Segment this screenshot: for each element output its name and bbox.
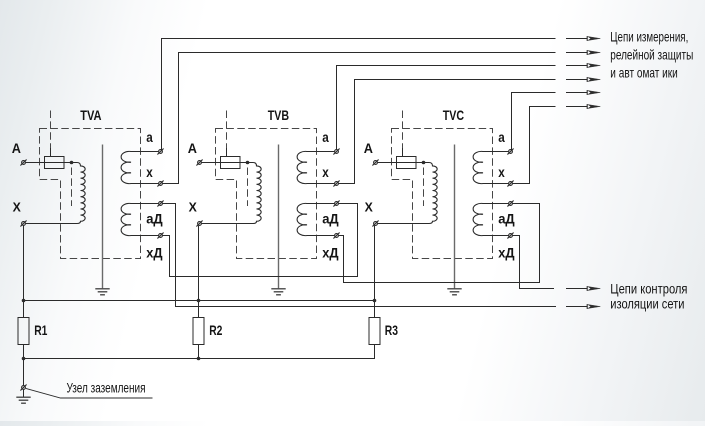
HV bushing dashed line TVC xyxy=(402,111,404,149)
terminal xD TVB xyxy=(335,234,339,238)
inner dashed line TVB xyxy=(247,168,249,207)
ground electrode (uzel zazemleniya) xyxy=(16,397,30,403)
secondary winding a-x TVA xyxy=(121,151,158,183)
auxiliary winding aD-xD TVA xyxy=(121,203,158,235)
wire: TVB x to line 4 xyxy=(339,80,556,184)
svg-text:Х: Х xyxy=(189,200,198,215)
svg-text:А: А xyxy=(188,140,197,156)
svg-text:TVB: TVB xyxy=(268,107,289,123)
arrow measuring circuit line 5 xyxy=(566,92,587,94)
voltage transformer TVA xyxy=(0,0,1,1)
wire: terminal A to primary coil TVB xyxy=(202,162,253,164)
wire: primary coil to terminal X TVB xyxy=(202,223,253,225)
neutral bus xyxy=(24,300,375,302)
fuse lead TVC xyxy=(402,148,404,157)
junction TVC X / bus xyxy=(373,299,377,303)
svg-text:х: х xyxy=(146,165,153,180)
svg-text:Цепи измерения,: Цепи измерения, xyxy=(610,28,688,44)
svg-text:а: а xyxy=(498,130,505,145)
fuse TVB xyxy=(221,157,241,169)
wire: TVB a to line 3 xyxy=(337,66,556,150)
terminal a TVA xyxy=(159,150,163,154)
primary winding TVB xyxy=(253,163,261,224)
HV bushing dashed line TVA xyxy=(50,111,52,149)
svg-text:х: х xyxy=(322,165,329,180)
wire: terminal A to primary coil TVA xyxy=(26,162,77,164)
terminal aD TVA xyxy=(159,202,163,206)
junction on primary TVC xyxy=(422,161,426,165)
terminal X TVA xyxy=(22,222,26,226)
resistor R2 xyxy=(193,318,204,345)
earthing terminal xyxy=(22,386,26,390)
terminal A TVB xyxy=(198,161,202,165)
svg-text:R3: R3 xyxy=(385,322,398,338)
wire: TVA aD to insulation-monitor line 2 xyxy=(163,204,556,307)
secondary winding a-x TVB xyxy=(297,151,334,183)
inner dashed line TVA xyxy=(71,168,73,207)
svg-text:Цепи контроля: Цепи контроля xyxy=(610,280,687,296)
junction R2 / earthing bus xyxy=(197,357,201,361)
leader line uzel zazemleniya xyxy=(26,388,153,398)
core ground TVC xyxy=(447,289,461,295)
primary winding TVC xyxy=(429,163,437,224)
arrow insulation monitoring line 1 xyxy=(566,288,587,290)
junction on primary TVB xyxy=(246,161,250,165)
core TVA xyxy=(102,145,104,289)
wire: TVC x to line 6 xyxy=(513,107,556,184)
secondary winding a-x TVC xyxy=(473,151,508,183)
core ground TVB xyxy=(271,289,285,295)
terminal x TVC xyxy=(509,182,513,186)
svg-text:х: х xyxy=(498,165,505,180)
svg-text:R1: R1 xyxy=(34,322,47,338)
svg-text:TVA: TVA xyxy=(80,107,101,123)
svg-text:А: А xyxy=(12,140,21,156)
terminal xD TVA xyxy=(159,234,163,238)
svg-text:хД: хД xyxy=(498,246,515,261)
svg-text:аД: аД xyxy=(498,211,515,226)
svg-text:Узел заземления: Узел заземления xyxy=(67,381,146,396)
svg-text:аД: аД xyxy=(322,211,339,226)
wire: TVC xD to insulation-monitor line 1 xyxy=(513,236,554,289)
voltage transformer TVC xyxy=(0,0,1,1)
arrow insulation monitoring line 2 xyxy=(566,306,587,308)
resistor R1 xyxy=(18,318,29,345)
wire: TVC a to line 5 xyxy=(512,93,556,150)
wire: TVA X down to R1 xyxy=(23,226,25,318)
core ground TVA xyxy=(95,289,109,295)
fuse lead TVB xyxy=(226,148,228,157)
terminal A TVC xyxy=(374,161,378,165)
junction on primary TVA xyxy=(70,161,74,165)
arrow measuring circuit line 1 xyxy=(566,38,587,40)
wire: TVB X down to R2 xyxy=(198,226,200,318)
junction TVA X / bus xyxy=(22,299,26,303)
svg-text:Х: Х xyxy=(365,200,374,215)
svg-text:изоляции сети: изоляции сети xyxy=(610,295,684,311)
arrow measuring circuit line 6 xyxy=(566,106,587,108)
fuse TVC xyxy=(397,157,417,169)
svg-text:хД: хД xyxy=(322,246,339,261)
core TVB xyxy=(278,145,280,289)
wire: TVA a to line 1 xyxy=(162,39,556,150)
terminal aD TVB xyxy=(335,202,339,206)
terminal A TVA xyxy=(22,161,26,165)
enclosure dashed box TVC xyxy=(392,129,493,259)
svg-text:релейной защиты: релейной защиты xyxy=(610,46,693,62)
terminal aD TVC xyxy=(509,202,513,206)
terminal xD TVC xyxy=(509,234,513,238)
wire: terminal A to primary coil TVC xyxy=(378,162,429,164)
svg-text:и авт омат ики: и авт омат ики xyxy=(610,64,678,80)
terminal x TVA xyxy=(159,182,163,186)
svg-text:а: а xyxy=(146,130,153,145)
svg-text:аД: аД xyxy=(146,211,163,226)
voltage transformer TVB xyxy=(0,0,1,1)
wire: TVB xD to TVC aD (open delta) xyxy=(339,204,540,283)
terminal X TVB xyxy=(198,222,202,226)
arrow measuring circuit line 4 xyxy=(566,79,587,81)
HV bushing dashed line TVB xyxy=(226,111,228,149)
svg-text:TVC: TVC xyxy=(443,107,464,123)
arrow measuring circuit line 3 xyxy=(566,65,587,67)
resistor R3 xyxy=(369,318,380,345)
svg-text:хД: хД xyxy=(146,246,163,261)
auxiliary winding aD-xD TVC xyxy=(473,203,508,235)
terminal a TVB xyxy=(335,150,339,154)
terminal a TVC xyxy=(509,150,513,154)
fuse TVA xyxy=(45,157,65,169)
junction R1 / earthing bus xyxy=(22,357,26,361)
svg-text:а: а xyxy=(322,130,329,145)
arrow measuring circuit line 2 xyxy=(566,52,587,54)
wire: TVC X down to R3 xyxy=(374,226,376,318)
primary winding TVA xyxy=(77,163,85,224)
svg-text:R2: R2 xyxy=(209,322,222,338)
svg-text:Х: Х xyxy=(13,200,22,215)
auxiliary winding aD-xD TVB xyxy=(297,203,334,235)
fuse lead TVA xyxy=(50,148,52,157)
enclosure dashed box TVB xyxy=(216,129,317,259)
terminal x TVB xyxy=(335,182,339,186)
enclosure dashed box TVA xyxy=(40,129,141,259)
wire: TVA x to line 2 xyxy=(163,53,556,184)
inner dashed line TVC xyxy=(423,168,425,207)
wire: primary coil to terminal X TVA xyxy=(26,223,77,225)
svg-text:А: А xyxy=(364,140,373,156)
wire: TVA xD to TVB aD (open delta) xyxy=(163,204,358,277)
earthing bus xyxy=(24,345,375,386)
core TVC xyxy=(454,145,456,289)
wire: terminal to earth electrode xyxy=(23,390,25,397)
wire: primary coil to terminal X TVC xyxy=(378,223,429,225)
terminal X TVC xyxy=(374,222,378,226)
junction TVB X / bus xyxy=(197,299,201,303)
